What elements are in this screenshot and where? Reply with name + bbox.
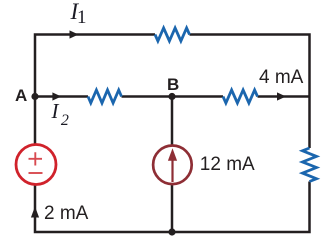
label node A [15,87,27,104]
label I1 [71,0,79,23]
voltage source V1 circle [16,145,56,185]
wire: middle vertical B down to current source [171,97,174,147]
node B junction dot [168,93,175,100]
wire: top rail left segment with left column top [35,35,155,145]
wire: middle horizontal resistor to B to resistor [122,95,224,98]
wire: middle horizontal A to resistor [35,95,88,98]
resistor on right column [303,148,317,182]
current source I=12mA circle [153,146,192,185]
current source arrow head [168,148,177,161]
junction dot bottom rail [168,228,175,235]
label I2 [52,101,59,122]
label I2 subscript [61,113,69,129]
current arrow I1 on top rail [70,30,79,38]
label 2 mA [44,204,88,223]
current arrow I2 on middle wire [52,92,61,100]
label node B [167,76,179,93]
label 12 mA [200,155,255,174]
label 4 mA [259,68,303,87]
current source arrow shaft [171,157,173,182]
voltage source minus sign [29,172,43,174]
resistor between node B and right column [223,90,258,103]
wire: middle horizontal resistor to right column [258,95,310,98]
current arrow 2 mA on left column [31,207,39,218]
wire: middle vertical current source down to bottom rail [171,184,174,232]
voltage source plus sign [29,152,43,165]
resistor between node A and node B [88,90,122,103]
node A junction dot [31,93,38,100]
wire: bottom rail with left and right column bottoms [35,182,310,233]
label I1 subscript [77,8,87,27]
current arrow 4 mA on middle wire [277,92,286,100]
resistor on top rail [155,28,190,41]
wire: top rail right segment with right column top [190,35,310,149]
